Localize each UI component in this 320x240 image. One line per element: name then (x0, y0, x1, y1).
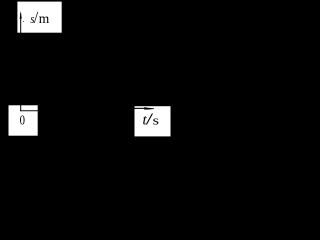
node: s-axis arrowhead (up) (20, 11, 22, 19)
node: t-axis arrowhead (right) (144, 107, 154, 110)
wire: vertical axis line (s axis) (20, 13, 21, 111)
svg-text:0: 0 (20, 112, 25, 128)
label box t/s (white background panel, bottom-right) (135, 106, 171, 136)
wire: horizontal axis segment at origin (x axis in box 0) (20, 109, 45, 112)
label box s/m (white background panel, top-left) (17, 2, 61, 33)
wire: horizontal axis segment in t/s box (130, 108, 144, 109)
label s/m (y axis label) (30, 9, 49, 27)
svg-text:m: m (39, 11, 50, 26)
label box 0 (white background panel, bottom-left, origin) (9, 105, 38, 135)
svg-text:s: s (153, 114, 160, 128)
node: stray dot (23, 21, 24, 22)
label t/s (x axis label) (143, 109, 160, 128)
